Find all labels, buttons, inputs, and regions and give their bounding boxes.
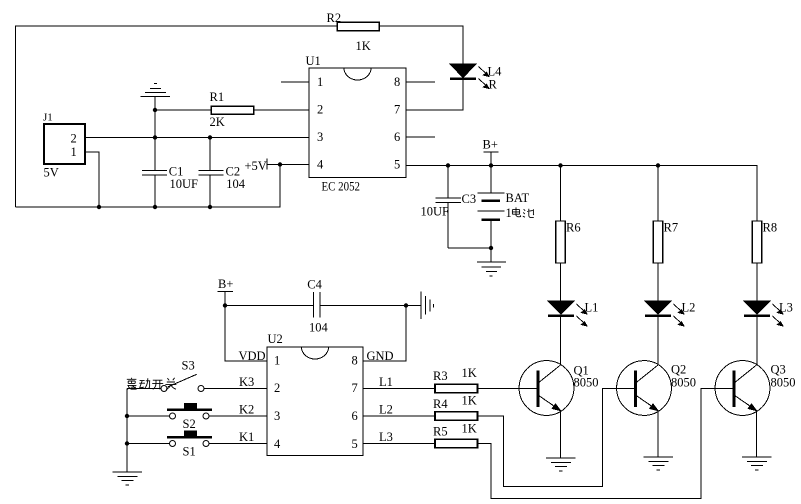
junction battery bottom bbox=[489, 246, 493, 250]
svg-text:6: 6 bbox=[352, 409, 358, 423]
ground Q2 bbox=[644, 457, 674, 470]
wire J1 pin2 to U1 pin3 bbox=[85, 137, 309, 139]
svg-text:8050: 8050 bbox=[771, 376, 796, 390]
capacitor C3 bbox=[436, 166, 492, 249]
arrow L1 b bbox=[577, 316, 588, 326]
svg-text:R: R bbox=[489, 78, 498, 92]
wire U2 pin5 to R5 bbox=[363, 443, 435, 445]
wire GND bbox=[363, 306, 406, 362]
wire U1 pin7 to LED L4 bbox=[406, 79, 463, 111]
wire U1 pin8 stub bbox=[406, 81, 435, 83]
ground C4 (rotated) bbox=[406, 292, 434, 320]
wire U2 pin7 to R3 bbox=[363, 388, 435, 390]
junction J1 pin1 rail bbox=[97, 205, 101, 209]
ground Q1 bbox=[546, 458, 576, 471]
label 震动开关 (vibration switch) drawn strokes bbox=[127, 378, 177, 390]
wire VDD bbox=[225, 306, 267, 362]
wire top loop bbox=[16, 26, 338, 207]
svg-text:R4: R4 bbox=[433, 397, 448, 411]
wire U1 pin1 stub bbox=[281, 81, 309, 83]
svg-text:4: 4 bbox=[274, 437, 281, 451]
ground Q3 bbox=[742, 457, 772, 470]
svg-text:3: 3 bbox=[274, 409, 280, 423]
wire B+ to C4 bbox=[225, 305, 313, 307]
resistor R7 bbox=[653, 166, 662, 302]
wire R5 to Q3 base bbox=[478, 389, 733, 499]
svg-text:GND: GND bbox=[367, 349, 394, 363]
junction C4 gnd node bbox=[404, 303, 408, 307]
svg-text:U2: U2 bbox=[268, 332, 283, 346]
char 池 bbox=[523, 209, 534, 218]
svg-text:10UF: 10UF bbox=[421, 205, 450, 219]
svg-text:1K: 1K bbox=[462, 366, 477, 380]
LED L1 bbox=[548, 301, 574, 365]
LED L2 bbox=[645, 301, 671, 365]
junction C1 row3 bbox=[153, 135, 157, 139]
switch S3 bbox=[127, 374, 267, 391]
svg-text:L3: L3 bbox=[379, 430, 393, 444]
char 关 bbox=[165, 378, 176, 390]
transistor Q3 bbox=[715, 361, 770, 457]
wire left rail bbox=[126, 389, 128, 473]
svg-text:L1: L1 bbox=[585, 301, 599, 315]
junction R7 top bbox=[656, 163, 660, 167]
svg-text:5V: 5V bbox=[44, 166, 59, 180]
mcu U2 bbox=[267, 347, 363, 456]
wire C4 to gnd node bbox=[320, 305, 406, 307]
svg-text:L4: L4 bbox=[488, 65, 503, 79]
svg-text:1: 1 bbox=[506, 206, 512, 220]
svg-text:VDD: VDD bbox=[239, 349, 266, 363]
resistor R3 bbox=[435, 384, 478, 393]
svg-text:BAT: BAT bbox=[506, 191, 530, 205]
arrow L4 b bbox=[479, 79, 490, 89]
capacitor C1 bbox=[142, 170, 167, 207]
junction R6 top bbox=[558, 163, 562, 167]
svg-text:3: 3 bbox=[317, 130, 323, 144]
svg-text:K3: K3 bbox=[239, 375, 254, 389]
svg-text:R8: R8 bbox=[763, 221, 778, 235]
LED L4 bbox=[450, 64, 476, 79]
wire R1 to U1 pin2 bbox=[254, 109, 310, 111]
svg-text:S3: S3 bbox=[182, 359, 195, 373]
svg-text:EC 2052: EC 2052 bbox=[322, 179, 361, 193]
connector J1 bbox=[44, 124, 85, 164]
svg-text:1: 1 bbox=[317, 75, 323, 89]
arrow L4 a bbox=[479, 67, 490, 77]
char 开 bbox=[152, 380, 163, 389]
svg-text:C4: C4 bbox=[307, 278, 322, 292]
junction B+ U2 bbox=[223, 303, 227, 307]
svg-text:S2: S2 bbox=[183, 417, 196, 431]
arrow L2 b bbox=[674, 316, 685, 326]
svg-text:U1: U1 bbox=[306, 54, 321, 68]
svg-text:R7: R7 bbox=[664, 221, 679, 235]
wire U1 pin5 B+ rail bbox=[406, 166, 757, 222]
transistor Q2 bbox=[617, 361, 672, 457]
wire ground to R1 bbox=[155, 109, 211, 111]
arrow L2 a bbox=[674, 304, 685, 314]
ground rail bbox=[113, 472, 143, 485]
svg-text:1: 1 bbox=[71, 145, 77, 159]
svg-text:R1: R1 bbox=[210, 90, 225, 104]
svg-text:R6: R6 bbox=[566, 221, 581, 235]
junction C2 row3 bbox=[208, 135, 212, 139]
svg-text:K1: K1 bbox=[239, 430, 254, 444]
char 震 bbox=[127, 378, 137, 390]
svg-text:1: 1 bbox=[274, 354, 280, 368]
B+ marker battery bbox=[484, 152, 499, 166]
svg-text:7: 7 bbox=[394, 103, 400, 117]
capacitor C2 bbox=[199, 170, 224, 207]
transistor Q1 bbox=[519, 361, 574, 458]
svg-text:2: 2 bbox=[274, 381, 280, 395]
LED L3 bbox=[744, 301, 770, 365]
svg-text:R2: R2 bbox=[327, 11, 342, 25]
junction rail S1 bbox=[125, 441, 129, 445]
arrow L3 b bbox=[773, 316, 784, 326]
wire U1 pin6 stub bbox=[406, 136, 435, 138]
svg-text:Q3: Q3 bbox=[771, 363, 786, 377]
resistor R5 bbox=[435, 439, 478, 448]
svg-text:1K: 1K bbox=[462, 422, 477, 436]
op-amp U1 bbox=[309, 68, 406, 178]
svg-text:J1: J1 bbox=[43, 112, 53, 124]
svg-text:S1: S1 bbox=[183, 445, 196, 459]
wire R2 right to LED bbox=[379, 26, 463, 64]
svg-text:104: 104 bbox=[309, 321, 329, 335]
junction C1 rail bbox=[153, 205, 157, 209]
wire R4 to Q2 base bbox=[478, 389, 635, 487]
svg-text:5: 5 bbox=[394, 158, 400, 172]
svg-text:2: 2 bbox=[317, 103, 323, 117]
svg-text:L2: L2 bbox=[379, 403, 393, 417]
svg-text:K2: K2 bbox=[239, 403, 254, 417]
label 电池 battery chinese bbox=[512, 207, 533, 217]
junction B+ battery bbox=[489, 163, 493, 167]
char 动 bbox=[139, 378, 150, 389]
svg-text:R3: R3 bbox=[433, 369, 448, 383]
svg-text:C3: C3 bbox=[462, 192, 477, 206]
resistor R2 bbox=[337, 22, 379, 31]
resistor R4 bbox=[435, 412, 478, 421]
junction +5V pin4 bbox=[278, 162, 282, 166]
wire R3 to Q1 base bbox=[478, 388, 537, 390]
svg-text:R5: R5 bbox=[433, 425, 448, 439]
char 电 bbox=[512, 207, 520, 216]
wire U2 pin6 to R4 bbox=[363, 415, 435, 417]
wire J1 pin1 down to rail bbox=[85, 152, 99, 207]
resistor R8 bbox=[752, 221, 761, 301]
resistor R1 bbox=[211, 106, 254, 114]
svg-text:4: 4 bbox=[317, 158, 324, 172]
svg-text:8: 8 bbox=[394, 75, 400, 89]
svg-text:5: 5 bbox=[352, 437, 358, 451]
junction rail S2 bbox=[125, 414, 129, 418]
arrow L1 a bbox=[577, 304, 588, 314]
ground top (inverted) bbox=[141, 83, 171, 110]
svg-text:6: 6 bbox=[394, 130, 400, 144]
switch S1 bbox=[127, 431, 267, 447]
resistor R6 bbox=[556, 166, 565, 302]
wire bottom +5V rail bbox=[16, 165, 281, 208]
svg-text:7: 7 bbox=[352, 381, 358, 395]
battery BAT bbox=[478, 166, 505, 263]
svg-text:104: 104 bbox=[226, 177, 246, 191]
svg-text:L1: L1 bbox=[379, 375, 393, 389]
switch S2 bbox=[127, 403, 267, 419]
ground battery bbox=[477, 262, 506, 276]
arrow L3 a bbox=[773, 304, 784, 314]
+5V marker bbox=[266, 159, 268, 170]
svg-text:B+: B+ bbox=[483, 138, 498, 152]
wire node C2 vertical bbox=[209, 138, 211, 171]
capacitor C4 bbox=[313, 292, 320, 318]
svg-text:+5V: +5V bbox=[245, 159, 267, 173]
svg-text:10UF: 10UF bbox=[170, 177, 199, 191]
junction C2 rail bbox=[208, 205, 212, 209]
B+ marker U2 bbox=[218, 291, 234, 305]
svg-text:L2: L2 bbox=[682, 301, 696, 315]
wire node C1 vertical bbox=[154, 110, 156, 170]
svg-text:8050: 8050 bbox=[574, 376, 599, 390]
svg-text:8: 8 bbox=[352, 354, 358, 368]
svg-text:8050: 8050 bbox=[671, 376, 696, 390]
svg-text:1K: 1K bbox=[356, 39, 371, 53]
svg-text:2: 2 bbox=[71, 132, 77, 146]
svg-text:L3: L3 bbox=[779, 301, 793, 315]
svg-text:1K: 1K bbox=[462, 394, 477, 408]
svg-text:Q2: Q2 bbox=[671, 363, 686, 377]
wire +5V to U1 pin4 bbox=[267, 164, 309, 166]
junction C3 top bbox=[446, 163, 450, 167]
junction ground R1 bbox=[153, 108, 157, 112]
svg-text:B+: B+ bbox=[218, 277, 233, 291]
svg-text:2K: 2K bbox=[210, 115, 225, 129]
